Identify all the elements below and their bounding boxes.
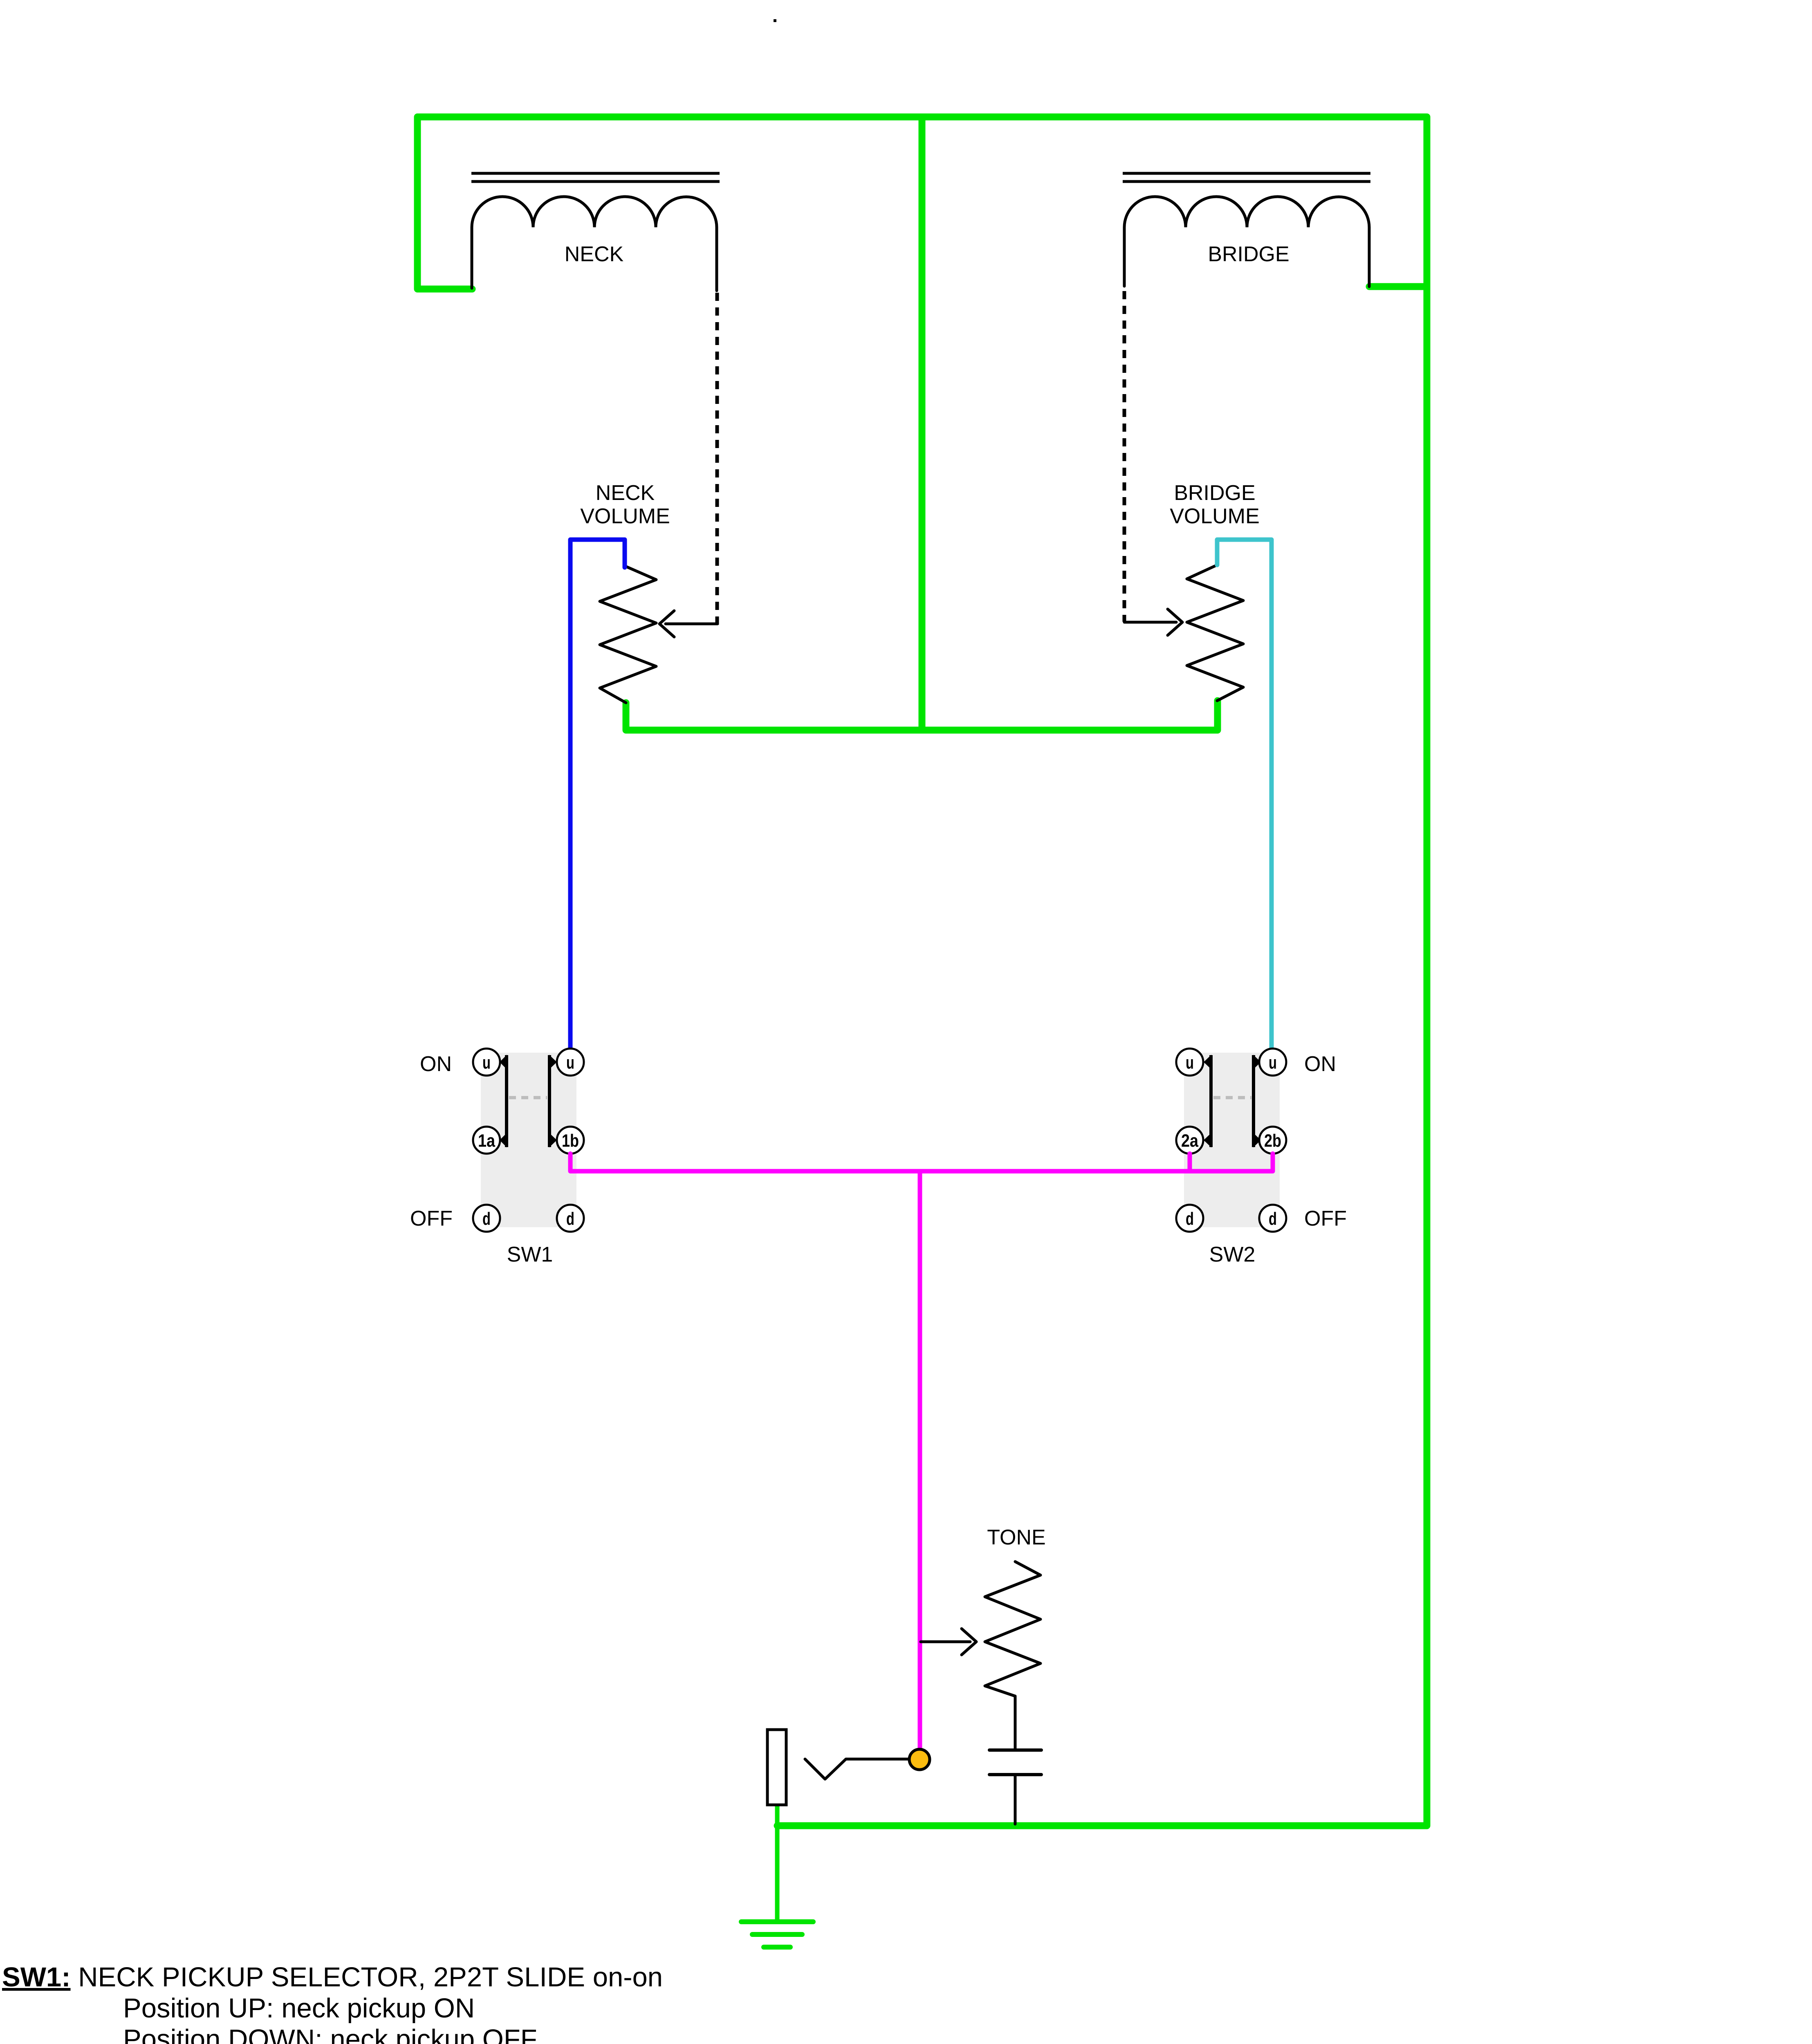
svg-text:d: d xyxy=(1186,1209,1194,1229)
svg-text:BRIDGE: BRIDGE xyxy=(1208,242,1289,266)
label TONE xyxy=(987,1526,1046,1549)
svg-text:NECK: NECK xyxy=(565,242,624,266)
SW2 pole a contact bar xyxy=(1204,1055,1211,1148)
svg-text:2a: 2a xyxy=(1181,1131,1198,1151)
SW2 pin u (pole a up) xyxy=(1176,1049,1203,1076)
SW1 pin u (pole b up) xyxy=(557,1049,584,1076)
neck volume wiper arrow xyxy=(659,611,718,637)
label OFF (SW2) xyxy=(1304,1207,1347,1230)
svg-text:TONE: TONE xyxy=(987,1526,1046,1549)
wire volume pots ground bus (green) xyxy=(626,701,1218,730)
SW1 pole a contact bar xyxy=(500,1055,507,1148)
output jack tip contact xyxy=(805,1759,911,1779)
wire bridge volume output to SW2 (cyan) xyxy=(1217,540,1272,1053)
svg-text:2b: 2b xyxy=(1264,1131,1281,1151)
svg-text:OFF: OFF xyxy=(1304,1207,1347,1230)
wire SW2-2a stub to signal bus (magenta) xyxy=(1188,1154,1192,1171)
svg-text:SW2: SW2 xyxy=(1209,1243,1256,1266)
switch SW2 body xyxy=(1184,1053,1280,1227)
SW2 pin 2b xyxy=(1259,1127,1286,1154)
svg-text:NECK: NECK xyxy=(596,481,655,505)
SW1 pin u (pole a up) xyxy=(473,1049,500,1076)
svg-text:SW1: NECK PICKUP SELECTOR, 2P2: SW1: NECK PICKUP SELECTOR, 2P2T SLIDE on… xyxy=(2,1962,663,1992)
bridge volume wiper arrow xyxy=(1124,609,1182,635)
tone wiper arrow xyxy=(921,1629,976,1655)
wire jack sleeve to ground (green) xyxy=(775,1806,780,1922)
svg-text:BRIDGE: BRIDGE xyxy=(1174,481,1255,505)
capacitor C1 (tone cap) xyxy=(989,1750,1041,1775)
svg-text:VOLUME: VOLUME xyxy=(580,504,670,528)
wire bridge pickup hot lead (dashed black) xyxy=(1123,291,1126,622)
wire signal bus SW1-1b to SW2-2b (magenta) xyxy=(570,1154,1273,1171)
svg-text:ON: ON xyxy=(420,1052,452,1076)
ground xyxy=(741,1922,813,1947)
wire ground bus main loop (green) xyxy=(417,117,1427,1826)
label BRIDGE VOLUME xyxy=(1170,481,1260,528)
SW2 pin d (pole a down) xyxy=(1176,1205,1203,1232)
svg-text:d: d xyxy=(1269,1209,1277,1229)
label NECK VOLUME xyxy=(580,481,670,528)
SW1 pole b contact bar xyxy=(549,1055,557,1148)
wire center ground drop from top bus to volume-pot ground bus (green) xyxy=(919,117,926,730)
svg-text:d: d xyxy=(482,1209,491,1229)
SW1 pin 1a xyxy=(473,1127,500,1154)
output jack J1 (sleeve body) xyxy=(767,1730,786,1805)
note SW1 description line 1 xyxy=(2,1962,663,1992)
svg-text:SW1: SW1 xyxy=(507,1243,553,1266)
SW1 pin d (pole a down) xyxy=(473,1205,500,1232)
svg-text:u: u xyxy=(566,1053,574,1073)
svg-text:ON: ON xyxy=(1304,1052,1336,1076)
label OFF (SW1) xyxy=(410,1207,453,1230)
svg-text:1a: 1a xyxy=(478,1131,495,1151)
wire bridge pickup ground stub (green) xyxy=(1369,283,1427,290)
node marker top center dot xyxy=(774,19,776,22)
svg-text:OFF: OFF xyxy=(410,1207,453,1230)
wire tone pot to capacitor xyxy=(1014,1696,1017,1749)
svg-text:Position UP: neck pickup ON: Position UP: neck pickup ON xyxy=(123,1993,475,2024)
SW1 pin d (pole b down) xyxy=(557,1205,584,1232)
potentiometer TONE (resistor zigzag) xyxy=(985,1562,1041,1696)
wire neck pickup hot lead (dashed black) xyxy=(715,293,719,625)
pickup NECK (coil with core lines) xyxy=(471,173,720,291)
SW2 pin d (pole b down) xyxy=(1259,1205,1286,1232)
label SW1 xyxy=(507,1243,553,1266)
SW2 pin u (pole b up) xyxy=(1259,1049,1286,1076)
potentiometer NECK VOLUME (resistor zigzag) xyxy=(600,566,656,703)
SW2 pole b contact bar xyxy=(1253,1055,1261,1148)
svg-text:VOLUME: VOLUME xyxy=(1170,504,1260,528)
label SW2 xyxy=(1209,1243,1256,1266)
SW2 pin 2a xyxy=(1176,1127,1203,1154)
svg-text:u: u xyxy=(1186,1053,1194,1073)
SW1 pin 1b xyxy=(557,1127,584,1154)
pickup BRIDGE (coil with core lines) xyxy=(1123,173,1370,287)
svg-text:1b: 1b xyxy=(562,1131,579,1151)
label ON (SW2) xyxy=(1304,1052,1336,1076)
note SW1 description line 3 xyxy=(123,2024,537,2044)
note SW1 description line 2 xyxy=(123,1993,475,2024)
svg-text:u: u xyxy=(482,1053,491,1073)
potentiometer BRIDGE VOLUME (resistor zigzag) xyxy=(1187,565,1243,701)
wire neck volume output to SW1 (blue) xyxy=(570,540,625,1053)
switch SW1 body xyxy=(481,1053,576,1227)
wire signal bus to output jack tip (magenta) xyxy=(918,1171,922,1758)
wire capacitor to ground bus xyxy=(1014,1775,1017,1824)
label ON (SW1) xyxy=(420,1052,452,1076)
svg-text:u: u xyxy=(1269,1053,1277,1073)
svg-text:Position DOWN: neck pickup OFF: Position DOWN: neck pickup OFF xyxy=(123,2024,537,2044)
svg-text:d: d xyxy=(566,1209,574,1229)
node hot output (orange junction) xyxy=(909,1749,930,1770)
